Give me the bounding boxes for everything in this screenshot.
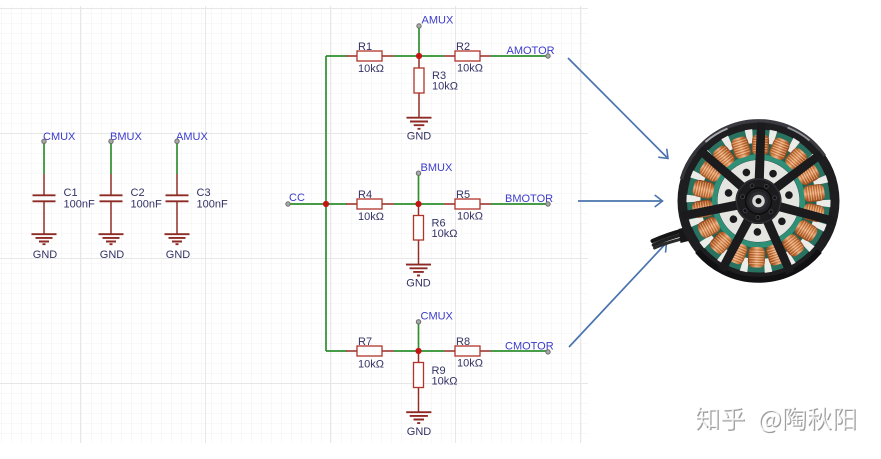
capacitor C3 — [166, 174, 228, 234]
wire — [491, 203, 548, 205]
svg-text:R1: R1 — [358, 41, 372, 53]
wire — [418, 28, 420, 56]
junction B — [415, 201, 421, 207]
svg-text:R5: R5 — [456, 189, 470, 201]
node AMOTOR — [507, 45, 555, 58]
glyph 阳 — [835, 409, 856, 431]
hub center plate — [736, 178, 782, 224]
node BMUX mid — [416, 162, 453, 176]
wire — [394, 350, 444, 352]
capacitor C1 — [33, 174, 95, 234]
node CC — [286, 192, 305, 206]
node CMOTOR — [505, 341, 554, 354]
svg-text:100nF: 100nF — [131, 199, 162, 211]
svg-text:GND: GND — [166, 249, 191, 261]
node BMUX — [109, 131, 143, 144]
svg-text:AMUX: AMUX — [176, 131, 208, 143]
svg-text:BMUX: BMUX — [421, 162, 453, 174]
svg-text:C3: C3 — [197, 187, 211, 199]
junction CC — [323, 201, 329, 207]
arrow to motor from CMOTOR — [569, 243, 667, 347]
junction C — [415, 348, 421, 354]
rotor bell — [678, 120, 840, 282]
svg-text:R7: R7 — [358, 336, 372, 348]
resistor R2 — [444, 41, 491, 75]
svg-text:CMUX: CMUX — [421, 310, 454, 322]
resistor R3 — [414, 59, 458, 118]
resistor R1 — [346, 41, 394, 75]
svg-text:GND: GND — [33, 249, 58, 261]
hub screws — [740, 183, 777, 219]
svg-text:CC: CC — [289, 192, 305, 204]
resistor R9 — [414, 354, 458, 412]
shaft boss — [746, 188, 772, 214]
resistor R4 — [346, 189, 394, 223]
wire — [491, 350, 548, 352]
stator plate holes — [724, 167, 793, 235]
glyph 秋 — [808, 408, 832, 431]
wire — [394, 55, 444, 57]
stator base white plate — [727, 169, 791, 233]
rim specular highlights — [706, 129, 728, 143]
svg-text:BMUX: BMUX — [110, 131, 142, 143]
ground — [32, 234, 58, 261]
svg-text:GND: GND — [406, 278, 431, 290]
resistor R7 — [346, 336, 394, 371]
rotor spokes x7 — [681, 122, 836, 274]
glyph 乎 — [722, 408, 744, 431]
arrow to motor from BMOTOR — [578, 200, 663, 202]
junction A — [416, 53, 422, 59]
svg-text:10kΩ: 10kΩ — [432, 81, 458, 93]
svg-text:10kΩ: 10kΩ — [358, 359, 384, 371]
wire — [43, 144, 45, 175]
svg-text:10kΩ: 10kΩ — [457, 358, 483, 370]
glyph 知 — [697, 408, 719, 431]
wire — [176, 144, 178, 175]
wire CC bus vertical — [326, 56, 347, 351]
svg-text:C2: C2 — [131, 187, 145, 199]
svg-text:GND: GND — [407, 426, 432, 438]
bottom shadow band — [698, 251, 820, 280]
svg-text:10kΩ: 10kΩ — [432, 375, 458, 387]
svg-text:100nF: 100nF — [197, 199, 228, 211]
svg-text:R8: R8 — [456, 336, 470, 348]
svg-text:100nF: 100nF — [64, 199, 95, 211]
node AMUX — [175, 131, 209, 144]
motor wire bundle — [653, 230, 686, 248]
ground — [407, 118, 432, 143]
arrow to motor from AMOTOR — [568, 58, 668, 159]
svg-text:GND: GND — [100, 249, 125, 261]
teal slot-liner annulus under coils — [703, 145, 815, 257]
MOTOR photo of brushless outrunner — [653, 120, 840, 282]
svg-text:10kΩ: 10kΩ — [358, 211, 384, 223]
glyph 陶 — [784, 408, 806, 431]
svg-text:10kΩ: 10kΩ — [358, 63, 384, 75]
node CMUX — [42, 131, 76, 144]
glyph @ — [760, 411, 781, 433]
wire — [394, 203, 444, 205]
rim top sheen — [693, 121, 825, 156]
wire — [110, 144, 112, 175]
wire — [290, 203, 347, 205]
ground — [165, 234, 191, 261]
resistor R6 — [414, 207, 458, 265]
svg-text:10kΩ: 10kΩ — [457, 63, 483, 75]
svg-text:C1: C1 — [64, 187, 78, 199]
svg-text:10kΩ: 10kΩ — [432, 228, 458, 240]
node BMOTOR — [505, 193, 553, 206]
teal insulation outer ring — [690, 133, 827, 270]
wire — [418, 175, 420, 204]
WATERMARK 知乎 @陶秋阳 — [696, 407, 856, 434]
copper coils x18 — [691, 134, 825, 268]
capacitor C2 — [100, 174, 162, 234]
ground — [406, 265, 431, 290]
svg-text:AMUX: AMUX — [422, 15, 454, 27]
svg-text:R4: R4 — [358, 189, 372, 201]
ground — [406, 412, 431, 438]
node AMUX top — [417, 15, 454, 29]
white slot liner wedges x18 — [686, 129, 830, 273]
ground — [99, 234, 125, 261]
svg-text:CMUX: CMUX — [43, 131, 76, 143]
teal insulation inner ring — [715, 157, 803, 245]
node CMUX bottom — [416, 310, 453, 324]
svg-text:R2: R2 — [456, 41, 470, 53]
resistor R8 — [444, 336, 491, 370]
wire — [418, 324, 420, 351]
svg-text:GND: GND — [407, 131, 432, 143]
svg-text:10kΩ: 10kΩ — [457, 211, 483, 223]
wire — [491, 55, 548, 57]
resistor R5 — [444, 189, 491, 223]
wire exit boot — [679, 225, 697, 243]
